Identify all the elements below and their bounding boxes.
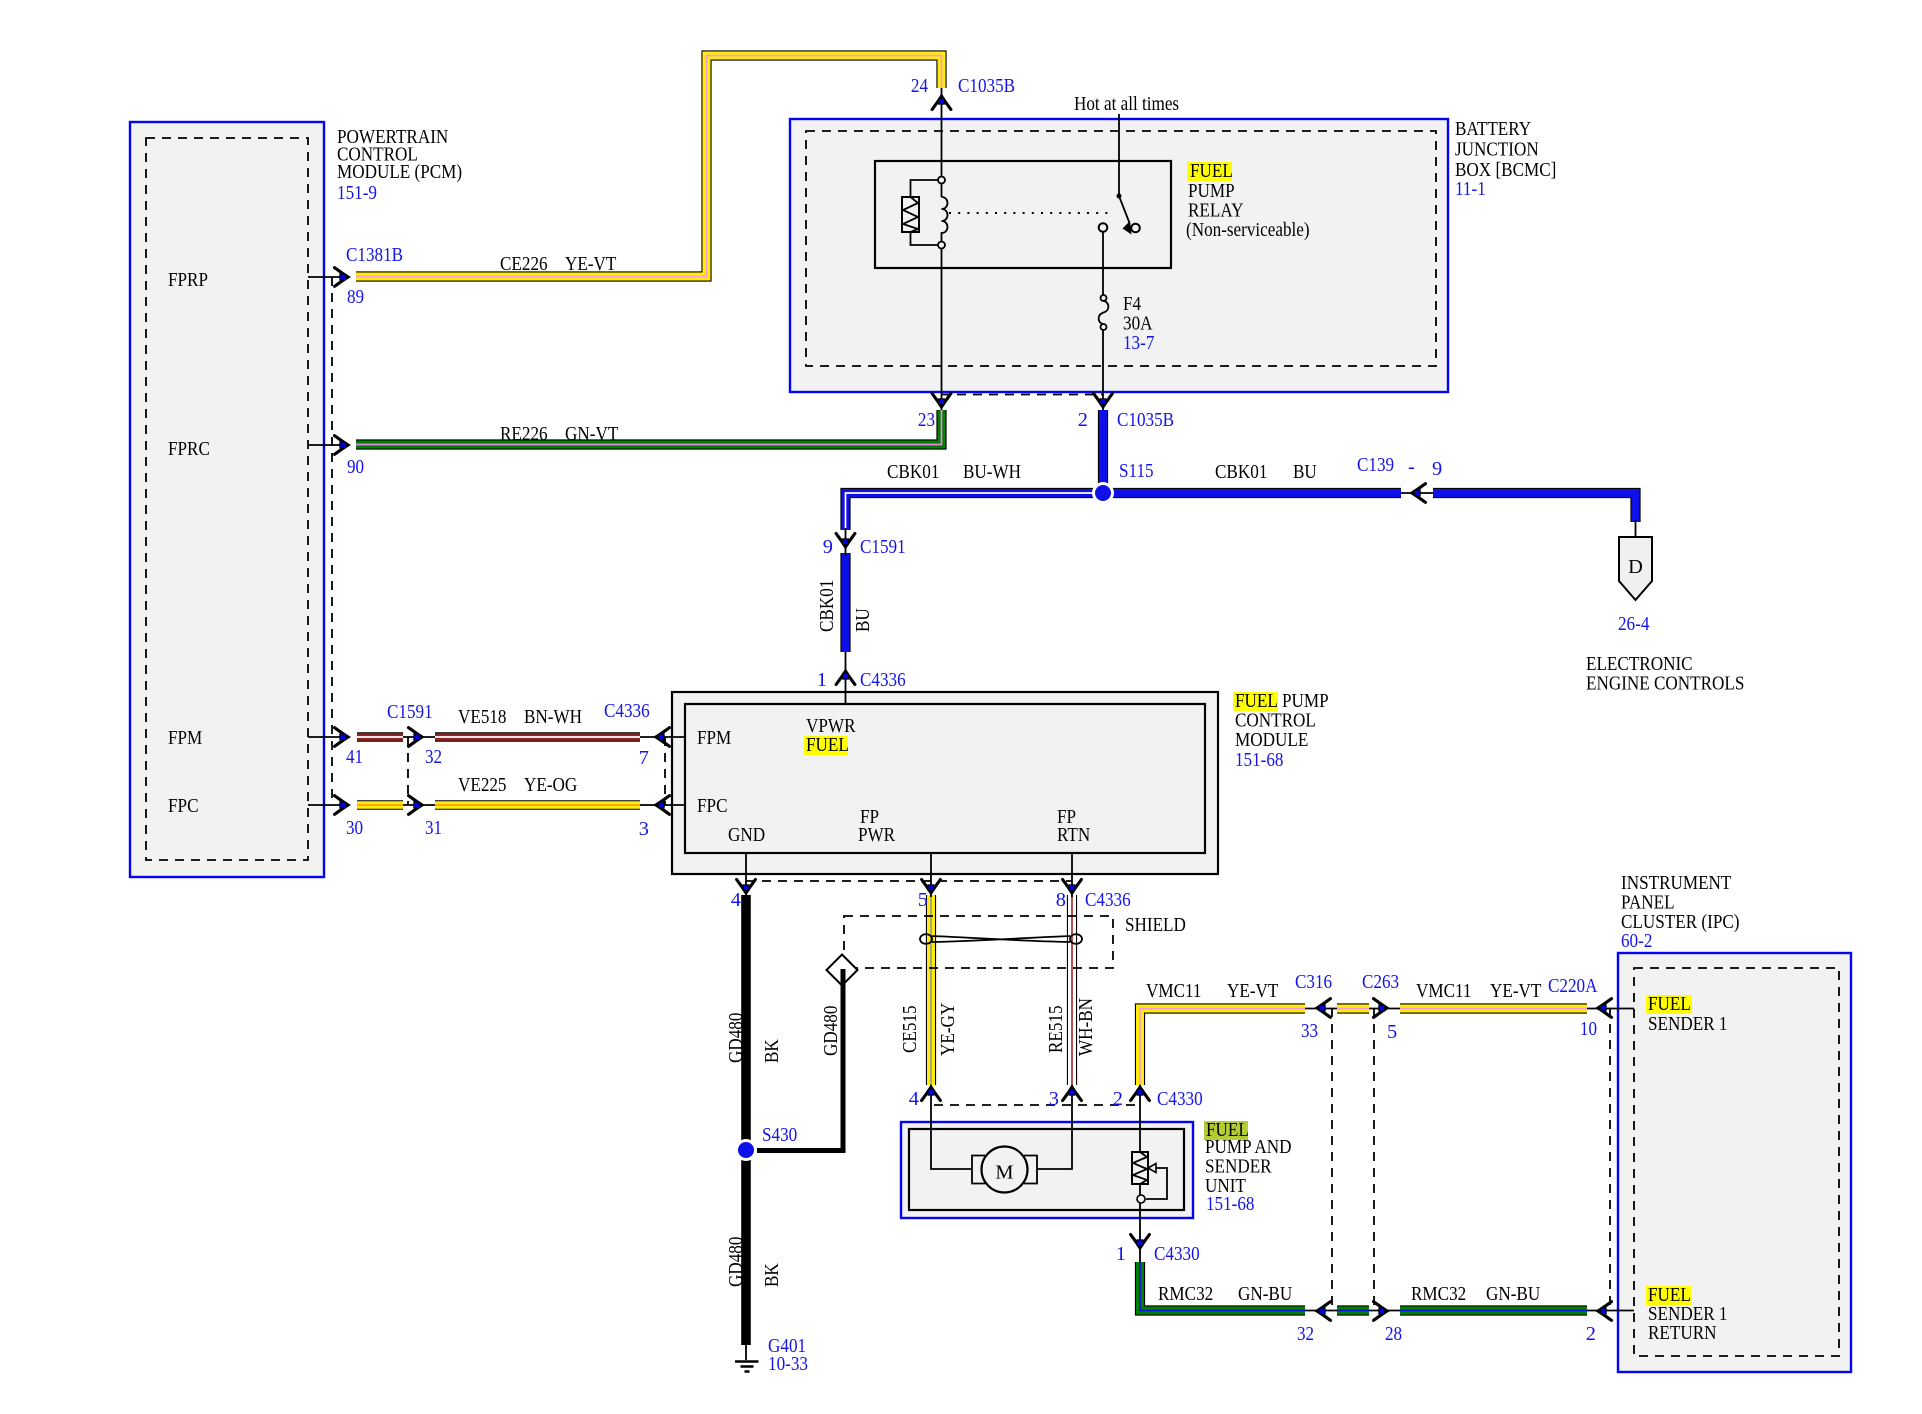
- svg-text:FUEL: FUEL: [1190, 160, 1233, 182]
- svg-text:S430: S430: [762, 1124, 797, 1146]
- svg-text:VE518: VE518: [458, 706, 507, 728]
- svg-text:FPRC: FPRC: [168, 438, 210, 460]
- pump unit pin1 lead: [1139, 1199, 1141, 1262]
- svg-text:RE226: RE226: [500, 423, 548, 445]
- svg-text:8: 8: [1056, 889, 1066, 911]
- wire VE225 YE-OG long (yellow): [435, 800, 640, 810]
- wire CBK01 BU vertical (blue): [840, 553, 850, 652]
- svg-text:GD480: GD480: [725, 1013, 747, 1063]
- svg-text:FPRP: FPRP: [168, 269, 208, 291]
- relay switch pivot: [1117, 194, 1122, 199]
- pin 9 C1591 junction line: [845, 528, 847, 556]
- connector arrow pin 41 C1381B: [335, 728, 349, 747]
- svg-text:YE-VT: YE-VT: [1227, 980, 1279, 1002]
- svg-text:C1035B: C1035B: [1117, 409, 1174, 431]
- svg-text:BN-WH: BN-WH: [524, 706, 582, 728]
- svg-text:Hot at all times: Hot at all times: [1074, 93, 1179, 115]
- svg-text:32: 32: [425, 746, 442, 768]
- svg-text:90: 90: [347, 456, 364, 478]
- svg-text:FUEL: FUEL: [806, 734, 849, 756]
- svg-text:MODULE: MODULE: [1235, 729, 1308, 751]
- svg-text:C4336: C4336: [604, 700, 650, 722]
- svg-text:C1591: C1591: [860, 536, 906, 558]
- connector arrow pin 2 C1035B: [1094, 394, 1113, 408]
- svg-text:151-68: 151-68: [1206, 1193, 1255, 1215]
- svg-text:RETURN: RETURN: [1648, 1322, 1717, 1344]
- svg-text:31: 31: [425, 817, 442, 839]
- connector arrow pin 30 C1381B: [335, 796, 349, 815]
- wire pin24 line into relay: [941, 88, 943, 180]
- svg-text:24: 24: [911, 75, 928, 97]
- connector arrow C220A pin 10: [1598, 999, 1612, 1018]
- C4336 dashed horizontal: [746, 880, 1072, 882]
- svg-text:2: 2: [1113, 1088, 1123, 1110]
- svg-text:VE225: VE225: [458, 774, 507, 796]
- C263 dashed: [1373, 1008, 1375, 1311]
- shield twisted pair: [920, 934, 932, 944]
- C316 dashed: [1331, 1008, 1333, 1311]
- C220A dashed: [1609, 1008, 1611, 1311]
- connector arrow pin 1 C4336: [836, 671, 855, 685]
- C316/C263 yellow row leads: [1305, 1008, 1337, 1010]
- svg-text:RMC32: RMC32: [1158, 1283, 1213, 1305]
- svg-text:2: 2: [1586, 1323, 1596, 1345]
- S115 splice dot: [1092, 482, 1114, 504]
- svg-text:S115: S115: [1119, 460, 1154, 482]
- wire CE515 YE-GY (yellow/gray): [926, 895, 936, 1085]
- wire CBK01 BU right of S115 (blue): [1106, 488, 1401, 498]
- svg-text:RTN: RTN: [1057, 824, 1090, 846]
- fuse F4: [1101, 295, 1107, 301]
- svg-text:C220A: C220A: [1548, 975, 1598, 997]
- svg-text:30: 30: [346, 817, 363, 839]
- relay switch contact right: [1131, 224, 1140, 233]
- wire CBK01 BU-WH (blue/white): [846, 493, 1101, 530]
- connector arrow pin 3 C4336: [656, 796, 670, 815]
- highlight rects: [1187, 162, 1232, 181]
- svg-text:13-7: 13-7: [1123, 332, 1154, 354]
- svg-text:YE-VT: YE-VT: [565, 253, 617, 275]
- svg-text:CBK01: CBK01: [1215, 461, 1267, 483]
- svg-text:89: 89: [347, 286, 364, 308]
- svg-text:D: D: [1628, 556, 1643, 578]
- svg-text:10-33: 10-33: [768, 1353, 808, 1375]
- svg-text:MODULE (PCM): MODULE (PCM): [337, 161, 462, 183]
- svg-text:C4330: C4330: [1157, 1088, 1203, 1110]
- relay coil: [942, 183, 948, 242]
- wire RMC32 GN-BU corner from pin1 C4330: [1140, 1262, 1305, 1311]
- wire C1035B pin2 to S115 (blue): [1098, 410, 1108, 490]
- svg-text:C4330: C4330: [1154, 1243, 1200, 1265]
- FPM/FPC inline leads: [403, 736, 435, 738]
- svg-text:151-9: 151-9: [337, 182, 377, 204]
- connector arrow pin 23 C1035B: [932, 394, 951, 408]
- shield dashed box: [844, 916, 1113, 968]
- svg-text:CBK01: CBK01: [816, 580, 838, 632]
- fuel pump motor: [972, 1156, 985, 1184]
- connector arrow pin 9 C1591: [836, 534, 855, 548]
- svg-text:11-1: 11-1: [1455, 178, 1486, 200]
- svg-text:FUEL: FUEL: [1648, 993, 1691, 1015]
- svg-text:RMC32: RMC32: [1411, 1283, 1466, 1305]
- svg-text:1: 1: [1116, 1243, 1126, 1265]
- svg-text:CE515: CE515: [899, 1005, 921, 1053]
- svg-text:CE226: CE226: [500, 253, 548, 275]
- D connector symbol: [1619, 537, 1652, 600]
- svg-text:C4336: C4336: [860, 669, 906, 691]
- relay dotted actuation line: [949, 212, 1114, 214]
- wire RMC32 GN-BU between C316 and C263: [1337, 1305, 1369, 1315]
- FPCM bottom pin leads: [745, 853, 747, 897]
- connector arrow C316 pin 33: [1317, 999, 1331, 1018]
- svg-text:YE-VT: YE-VT: [1490, 980, 1542, 1002]
- C139 inline connector line: [1401, 492, 1433, 494]
- svg-text:FPC: FPC: [168, 795, 199, 817]
- svg-text:3: 3: [639, 818, 649, 840]
- wire GD480 BK (black ground wire): [741, 895, 751, 1345]
- svg-text:5: 5: [1387, 1021, 1397, 1043]
- svg-text:GND: GND: [728, 824, 765, 846]
- svg-text:JUNCTION: JUNCTION: [1455, 139, 1539, 161]
- svg-text:9: 9: [1432, 458, 1442, 480]
- connector arrow C263 pin 28: [1374, 1302, 1388, 1321]
- svg-text:BU-WH: BU-WH: [963, 461, 1021, 483]
- wire CBK01 BU after C139 (blue): [1433, 493, 1636, 522]
- connector arrow pin 8 C4336: [1063, 880, 1082, 894]
- relay switch blade: [1119, 196, 1130, 223]
- svg-text:9: 9: [823, 536, 833, 558]
- C1381B dashed: [331, 277, 333, 805]
- wire VE225 YE-OG short (yellow): [357, 800, 403, 810]
- connector arrow C139 pin 9: [1412, 484, 1426, 503]
- svg-text:1: 1: [817, 669, 827, 691]
- svg-text:ENGINE CONTROLS: ENGINE CONTROLS: [1586, 673, 1744, 695]
- fuel pump control module box: [672, 692, 1218, 874]
- svg-text:YE-OG: YE-OG: [524, 774, 578, 796]
- fuel pump and sender unit box: [901, 1122, 1193, 1218]
- svg-text:BK: BK: [761, 1263, 783, 1287]
- svg-text:M: M: [995, 1162, 1013, 1184]
- wire VMC11 YE-VT between C316 and C263: [1337, 1003, 1369, 1013]
- wire VE518 BN-WH short (brown): [357, 732, 403, 742]
- C316/C263 green row leads: [1305, 1310, 1337, 1312]
- svg-text:4: 4: [909, 1088, 919, 1110]
- wire RE226 GN-VT (green): [356, 410, 942, 445]
- connector arrow pin 7 C4336: [656, 728, 670, 747]
- connector arrow pin 4 C4330: [922, 1087, 941, 1101]
- svg-text:C1381B: C1381B: [346, 244, 403, 266]
- svg-text:C139: C139: [1357, 454, 1394, 476]
- connector arrow pin 90 C1381B: [335, 436, 349, 455]
- svg-text:GD480: GD480: [820, 1006, 842, 1056]
- svg-text:SENDER 1: SENDER 1: [1648, 1013, 1728, 1035]
- connector arrow pin 24 C1035B: [932, 96, 951, 110]
- svg-text:23: 23: [918, 409, 935, 431]
- hot at all times lead: [1118, 114, 1120, 194]
- svg-text:BK: BK: [761, 1039, 783, 1063]
- svg-text:BU: BU: [1293, 461, 1317, 483]
- relay switch contact left (output): [1099, 223, 1108, 232]
- svg-text:10: 10: [1580, 1018, 1597, 1040]
- svg-text:2: 2: [1078, 409, 1088, 431]
- svg-text:32: 32: [1297, 1323, 1314, 1345]
- svg-text:CBK01: CBK01: [887, 461, 939, 483]
- D connector lead: [1635, 520, 1637, 540]
- pin 1 C4336 line into FPCM: [845, 652, 847, 704]
- C1591 dashed: [407, 737, 409, 805]
- svg-text:GD480: GD480: [725, 1237, 747, 1287]
- connector arrow pin 32 C1591: [409, 728, 423, 747]
- svg-text:4: 4: [731, 889, 741, 911]
- S430 splice dot: [735, 1139, 757, 1161]
- relay coil terminal bottom: [938, 242, 945, 249]
- instrument panel cluster box: [1618, 953, 1851, 1372]
- svg-text:GN-VT: GN-VT: [565, 423, 619, 445]
- svg-text:FPM: FPM: [697, 727, 731, 749]
- connector arrow pin 2 C4330: [1131, 1087, 1150, 1101]
- svg-text:33: 33: [1301, 1020, 1318, 1042]
- svg-text:151-68: 151-68: [1235, 749, 1284, 771]
- C1035B dashed: [941, 394, 1103, 396]
- svg-text:PWR: PWR: [858, 824, 895, 846]
- svg-text:28: 28: [1385, 1323, 1402, 1345]
- C4330 pin leads into pump unit: [931, 1085, 972, 1169]
- svg-text:YE-GY: YE-GY: [937, 1002, 959, 1056]
- svg-text:C263: C263: [1362, 971, 1399, 993]
- connector arrow pin 1 C4330: [1131, 1235, 1150, 1249]
- C4330 dashed horizontal: [934, 1104, 1140, 1106]
- svg-text:GN-BU: GN-BU: [1238, 1283, 1292, 1305]
- svg-text:26-4: 26-4: [1618, 613, 1649, 635]
- fuel pump relay box: [875, 161, 1171, 268]
- svg-text:C1591: C1591: [387, 701, 433, 723]
- ground symbol G401: [735, 1362, 759, 1372]
- battery junction box: [790, 119, 1448, 392]
- svg-text:SHIELD: SHIELD: [1125, 914, 1186, 936]
- wire RMC32 GN-BU from C263 to IPC: [1400, 1305, 1587, 1315]
- svg-text:FPC: FPC: [697, 795, 728, 817]
- wire GD480 branch from S430 to shield diamond: [757, 969, 843, 1151]
- svg-text:C1035B: C1035B: [958, 75, 1015, 97]
- svg-text:60-2: 60-2: [1621, 930, 1652, 952]
- svg-text:GN-BU: GN-BU: [1486, 1283, 1540, 1305]
- svg-text:FPM: FPM: [168, 727, 202, 749]
- connector arrow pin 3 C4330: [1063, 1087, 1082, 1101]
- wire VMC11 YE-VT from C263 to C220A: [1400, 1003, 1587, 1013]
- relay coil terminal top: [938, 177, 945, 184]
- svg-text:RE515: RE515: [1045, 1005, 1067, 1053]
- svg-text:-: -: [1408, 456, 1415, 478]
- connector arrow C316 pin 32: [1317, 1302, 1331, 1321]
- wire RE515 WH-BN (white/brown): [1067, 895, 1077, 1085]
- connector arrow pin 4 C4336: [737, 880, 756, 894]
- svg-text:C4336: C4336: [1085, 889, 1131, 911]
- relay coil lead down to pin 23: [941, 248, 943, 410]
- C4336 dashed vertical: [664, 737, 666, 805]
- connector arrow pin 31 C1591: [409, 796, 423, 815]
- connector arrow IPC pin 2: [1598, 1302, 1612, 1321]
- svg-text:3: 3: [1049, 1088, 1059, 1110]
- svg-text:5: 5: [918, 889, 928, 911]
- relay resistor: [911, 180, 939, 245]
- wire VE518 BN-WH long (brown): [435, 732, 640, 742]
- wire CE226 YE-VT (yellow): [356, 56, 942, 277]
- svg-text:WH-BN: WH-BN: [1075, 998, 1097, 1056]
- svg-text:BU: BU: [852, 608, 874, 632]
- connector arrow pin 89 C1381B: [335, 268, 349, 287]
- PCM pin lines: [308, 276, 340, 278]
- svg-text:VMC11: VMC11: [1146, 980, 1202, 1002]
- connector arrow pin 5 C4336: [922, 880, 941, 894]
- shield drain diamond: [827, 955, 858, 986]
- PCM box: [130, 122, 324, 877]
- ground lead G401: [745, 1345, 747, 1360]
- svg-text:7: 7: [639, 747, 649, 769]
- wire VMC11 YE-VT corner from pin2 C4330: [1140, 1009, 1305, 1086]
- connector arrow C263 pin 5: [1374, 999, 1388, 1018]
- svg-text:41: 41: [346, 746, 363, 768]
- svg-text:(Non-serviceable): (Non-serviceable): [1186, 219, 1310, 241]
- fuel sender resistor: [1132, 1152, 1148, 1184]
- fuse lead down to pin 2: [1102, 231, 1104, 296]
- svg-text:VMC11: VMC11: [1416, 980, 1472, 1002]
- svg-text:C316: C316: [1295, 971, 1332, 993]
- svg-text:BATTERY: BATTERY: [1455, 118, 1531, 140]
